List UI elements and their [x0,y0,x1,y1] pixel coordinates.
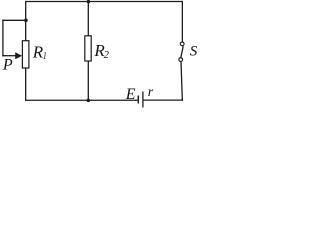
svg-text:S: S [190,44,197,60]
wire: bottom bus right of battery [144,99,183,101]
svg-text:r: r [148,85,154,100]
wire: top bus [25,1,183,3]
node: bottom junction dot of R2 branch [87,99,91,103]
wire: slider left vertical [2,20,4,57]
svg-text:E: E [125,86,136,103]
node: slider tap junction dot [24,19,28,23]
node: top junction dot of R2 branch [87,0,91,3]
switch S blade [181,46,183,58]
wire: slider arm horizontal [2,55,16,57]
svg-text:2: 2 [104,50,110,61]
resistor R1 (box) [22,41,29,68]
battery E short plate (negative) [137,96,139,104]
wire: slider top horizontal [2,19,25,21]
wire: right branch lower vertical [181,61,182,101]
svg-text:1: 1 [42,51,47,62]
battery E long plate (positive) [142,92,144,108]
resistor R2 (box) [85,36,91,61]
wire: left branch vertical (R1 branch) [25,1,27,101]
switch S top contact circle [180,42,184,46]
svg-text:P: P [2,56,13,73]
slider arrow head of potentiometer P [15,52,22,59]
wire: right branch upper vertical [181,1,183,42]
wire: middle branch vertical (R2 branch) [87,1,89,101]
wire: bottom bus left of battery [25,99,138,101]
switch S bottom contact circle [179,58,183,62]
